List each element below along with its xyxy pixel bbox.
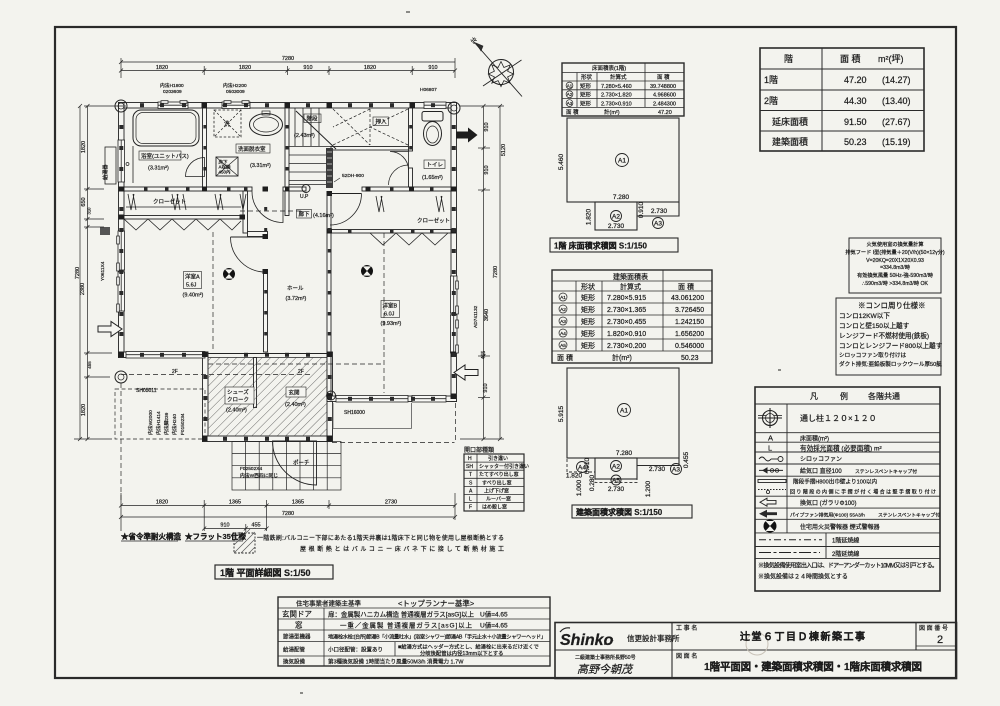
svg-text:(27.67): (27.67) — [882, 117, 911, 127]
stray scan marks — [300, 11, 781, 694]
svg-text:洋室A: 洋室A — [185, 273, 200, 281]
svg-text:910: 910 — [428, 65, 437, 71]
svg-text:V=20KQ=20X1X20X0.93: V=20KQ=20X1X20X0.93 — [866, 258, 924, 264]
svg-text:矩形: 矩形 — [580, 99, 592, 107]
svg-text:(14.27): (14.27) — [882, 75, 911, 85]
diagram: 1F floor area (求積図 1) — [567, 118, 679, 230]
svg-text:クローク: クローク — [227, 397, 249, 404]
compass north — [474, 42, 522, 97]
svg-text:形状: 形状 — [581, 73, 593, 81]
wall: bath/washroom — [203, 108, 207, 187]
porch tiles — [232, 442, 341, 491]
svg-text:1820: 1820 — [81, 404, 87, 416]
wall: interior corridor y189 — [124, 187, 252, 191]
svg-text:計算式: 計算式 — [620, 282, 641, 291]
note: hatch legend — [234, 529, 504, 553]
fixture: washing machine — [214, 110, 241, 137]
svg-text:450內: 450內 — [219, 169, 232, 176]
meter box — [100, 227, 110, 235]
svg-text:455: 455 — [87, 361, 92, 369]
svg-text:浴室(ユニットバス): 浴室(ユニットバス) — [141, 152, 189, 160]
room labels — [136, 114, 450, 479]
svg-text:A3: A3 — [567, 101, 573, 106]
svg-text:H: H — [468, 456, 472, 462]
svg-text:50.23: 50.23 — [844, 137, 867, 147]
svg-text:図 面 名: 図 面 名 — [676, 652, 697, 660]
symbol: 給気口 — [759, 469, 783, 471]
svg-text:クローゼット: クローゼット — [153, 198, 186, 206]
window symbols — [117, 101, 459, 402]
svg-text:玄関: 玄関 — [289, 389, 301, 397]
svg-text:建築面積表: 建築面積表 — [613, 272, 648, 281]
svg-text:給湯器: 給湯器 — [101, 164, 109, 180]
table: 1F floor area calc (床面積表) — [562, 63, 684, 116]
svg-text:0503009: 0503009 — [226, 89, 245, 95]
svg-text:∴590m3/時 >334.8m3/時 OK: ∴590m3/時 >334.8m3/時 OK — [862, 280, 929, 287]
svg-text:玄関ドア: 玄関ドア — [282, 609, 312, 619]
door arc: entrance — [273, 441, 317, 485]
caption: 1階 平面詳細図 S:1/50 — [215, 565, 333, 579]
symbol: 2階延焼線 — [759, 552, 820, 554]
canopy below hall window — [333, 403, 412, 428]
svg-text:H06807: H06807 — [420, 87, 437, 93]
svg-text:矩形: 矩形 — [581, 305, 595, 314]
svg-text:455: 455 — [481, 351, 487, 360]
svg-text:650: 650 — [81, 197, 87, 206]
svg-text:A2: A2 — [567, 92, 573, 97]
svg-text:1.820×0.910: 1.820×0.910 — [607, 331, 646, 338]
svg-text:凡: 凡 — [810, 392, 818, 401]
svg-text:★フラット35仕様: ★フラット35仕様 — [185, 531, 246, 541]
svg-text:AD741132: AD741132 — [473, 305, 479, 328]
svg-text:換気口 (ガラリΦ100): 換気口 (ガラリΦ100) — [800, 499, 856, 507]
diagram: building area (求積図 2) — [567, 368, 679, 482]
wall: 洋室B left — [327, 195, 331, 394]
svg-text:A3: A3 — [672, 467, 680, 474]
svg-text:回り階段の内側に手摺が付く場合は堅手摺取り付け: 回り階段の内側に手摺が付く場合は堅手摺取り付け — [790, 489, 936, 496]
svg-text:屋根断熱とはバルコニー床バネ下に接して断熱材施工: 屋根断熱とはバルコニー床バネ下に接して断熱材施工 — [300, 545, 504, 553]
svg-text:7.280×5.915: 7.280×5.915 — [607, 295, 646, 302]
closet zigzag rails — [124, 219, 241, 230]
svg-text:コンロと壁150以上離す: コンロと壁150以上離す — [839, 321, 910, 330]
svg-text:扉：金属製ハニカム構造 普通複層ガラス[asG]以上: 扉：金属製ハニカム構造 普通複層ガラス[asG]以上 — [328, 610, 475, 619]
svg-text:5.460: 5.460 — [558, 153, 565, 170]
svg-text:7.280: 7.280 — [613, 194, 630, 201]
svg-text:給湯配管: 給湯配管 — [283, 646, 306, 654]
svg-text:排気フード I型(排気量＋20(V/h)(50×12γ分): 排気フード I型(排気量＋20(V/h)(50×12γ分) — [845, 248, 945, 256]
svg-text:(13.40): (13.40) — [882, 96, 911, 106]
symbol: 通し柱 post — [763, 411, 778, 426]
svg-text:(9.40m²): (9.40m²) — [183, 293, 204, 299]
svg-text:建築面積: 建築面積 — [772, 136, 808, 147]
svg-text:シロッコファン: シロッコファン — [800, 456, 842, 463]
svg-text:クローゼット: クローゼット — [417, 217, 450, 225]
svg-text:A1: A1 — [567, 83, 573, 88]
svg-text:面 積: 面 積 — [557, 353, 573, 362]
svg-text:(4.16m²): (4.16m²) — [313, 213, 334, 219]
dimension: bottom — [119, 493, 457, 532]
svg-text:3640: 3640 — [484, 309, 490, 321]
svg-text:2.730×1.820: 2.730×1.820 — [601, 93, 632, 99]
svg-text:A3: A3 — [560, 319, 566, 325]
svg-text:910: 910 — [484, 122, 490, 131]
svg-text:5120: 5120 — [501, 144, 507, 156]
oshiire dashed cross — [333, 109, 408, 145]
svg-text:二級建築士事務所長野50号: 二級建築士事務所長野50号 — [575, 654, 636, 661]
svg-text:辻堂６丁目Ｄ棟新築工事: 辻堂６丁目Ｄ棟新築工事 — [740, 630, 865, 643]
posts (black squares) — [119, 103, 457, 442]
svg-text:★省令準耐火構造: ★省令準耐火構造 — [121, 531, 181, 541]
svg-text:すべり出し窓: すべり出し窓 — [482, 479, 512, 486]
svg-text:2: 2 — [937, 634, 943, 646]
svg-text:小口径配管：設置あり: 小口径配管：設置あり — [328, 646, 383, 654]
svg-text:7.280×5.460: 7.280×5.460 — [601, 84, 632, 90]
svg-text:窓: 窓 — [295, 620, 303, 630]
svg-text:1階延焼線: 1階延焼線 — [832, 537, 859, 545]
svg-text:面 積: 面 積 — [657, 73, 670, 81]
svg-text:開口部種類: 開口部種類 — [464, 446, 494, 454]
svg-text:4.968600: 4.968600 — [653, 93, 676, 99]
svg-text:洗: 洗 — [224, 120, 230, 128]
svg-text:ステンレスベントキャップ付: ステンレスベントキャップ付 — [878, 511, 940, 518]
fixture: toilet — [422, 112, 443, 122]
svg-text:A2: A2 — [560, 307, 566, 313]
svg-text:1.242150: 1.242150 — [675, 319, 704, 326]
symbol: パイプファン black arrow — [759, 510, 777, 518]
svg-text:矩形: 矩形 — [580, 91, 592, 99]
svg-text:ステンレスベントキャップ付: ステンレスベントキャップ付 — [855, 468, 917, 475]
svg-text:たてすべり出し窓: たてすべり出し窓 — [479, 471, 519, 478]
svg-text:T: T — [469, 472, 472, 478]
svg-text:面 積: 面 積 — [840, 53, 861, 64]
symbol: 1階延焼線 — [759, 539, 822, 541]
window: toilet top H06807 — [424, 102, 446, 109]
svg-text:(2.40m²): (2.40m²) — [285, 402, 306, 408]
svg-text:地湯栓水栓:(台所)節湯B「小流量吐水」(浴室シャワー)節湯: 地湯栓水栓:(台所)節湯B「小流量吐水」(浴室シャワー)節湯AB「手元止水＋小流… — [328, 633, 546, 641]
svg-text:2.730×0.200: 2.730×0.200 — [607, 343, 646, 350]
svg-text:シャッター付引き違い: シャッター付引き違い — [479, 463, 529, 470]
fire alarm 洋室A — [223, 268, 235, 280]
svg-text:1.656200: 1.656200 — [675, 331, 704, 338]
svg-text:1820: 1820 — [156, 65, 168, 71]
svg-text:1820: 1820 — [156, 500, 168, 506]
svg-text:シューズ: シューズ — [227, 388, 249, 396]
svg-text:図 面 番 号: 図 面 番 号 — [919, 625, 948, 632]
svg-text:内法H240: 内法H240 — [171, 414, 178, 435]
svg-text:2.730: 2.730 — [608, 223, 625, 230]
svg-text:91.50: 91.50 — [844, 117, 867, 127]
svg-text:階段手摺H800出巾壁より100以内: 階段手摺H800出巾壁より100以内 — [793, 478, 878, 486]
svg-text:2.730: 2.730 — [649, 466, 666, 473]
wall: closet A bottom — [124, 216, 243, 220]
svg-text:矩形: 矩形 — [581, 293, 595, 302]
svg-text:※換気設備は２４時間換気とする: ※換気設備は２４時間換気とする — [758, 573, 848, 581]
door arc: washroom to corridor — [252, 192, 283, 223]
svg-text:2.484300: 2.484300 — [653, 101, 676, 107]
wall: genkan right — [327, 352, 333, 442]
table: トップランナー基準 — [278, 597, 550, 666]
svg-text:一階鉄刷:バルコニー下部にあたる1階天井裏は1階床下と同じ物: 一階鉄刷:バルコニー下部にあたる1階天井裏は1階床下と同じ物を使用し屋根断熱とす… — [257, 534, 504, 542]
svg-text:形状: 形状 — [581, 282, 595, 291]
terrace window labels vertical — [147, 410, 186, 435]
svg-text:内法W2000: 内法W2000 — [147, 410, 154, 435]
window: washroom top 0503009 — [222, 102, 250, 109]
svg-text:2.730: 2.730 — [651, 208, 668, 215]
svg-text:(2.40m²): (2.40m²) — [226, 408, 247, 414]
water heater box — [105, 147, 116, 184]
wall: lower-right bottom — [327, 396, 457, 402]
svg-text:2階: 2階 — [764, 96, 778, 106]
svg-text:パイプファン排気用(Φ100) 55A3/h: パイプファン排気用(Φ100) 55A3/h — [790, 511, 865, 518]
svg-text:7280: 7280 — [75, 267, 81, 279]
svg-text:Y0611X4: Y0611X4 — [100, 261, 106, 281]
svg-text:1820: 1820 — [81, 141, 87, 153]
svg-text:給気口 直径100: 給気口 直径100 — [800, 467, 842, 475]
svg-text:通し柱１２０×１２０: 通し柱１２０×１２０ — [800, 413, 877, 423]
table: 凡例 legend (right) — [755, 387, 940, 591]
svg-text:1.200: 1.200 — [645, 480, 652, 497]
table: floor area summary (top right) — [760, 48, 924, 151]
svg-text:第3種換気設備 1時間当たり風量50M3/h 消費電力: 第3種換気設備 1時間当たり風量50M3/h 消費電力 1.7W — [328, 658, 464, 666]
svg-text:トイレ: トイレ — [427, 163, 444, 169]
svg-text:1階平面図・建築面積求積図・1階床面積求積図: 1階平面図・建築面積求積図・1階床面積求積図 — [704, 660, 922, 673]
svg-text:310: 310 — [87, 207, 92, 215]
svg-text:U値=4.65: U値=4.65 — [480, 621, 508, 630]
door arc: 洋室B — [330, 193, 362, 195]
svg-text:7280: 7280 — [282, 56, 294, 62]
svg-text:1.820: 1.820 — [586, 208, 593, 225]
svg-text:換気設備: 換気設備 — [283, 658, 306, 666]
svg-text:(3.31m²): (3.31m²) — [250, 163, 271, 169]
svg-text:A3: A3 — [654, 221, 662, 228]
svg-text:1.820: 1.820 — [566, 473, 583, 480]
svg-text:シロッコファン取り付けは: シロッコファン取り付けは — [839, 351, 907, 359]
svg-text:m²(坪): m²(坪) — [878, 54, 904, 64]
svg-text:47.20: 47.20 — [658, 110, 672, 116]
svg-text:L: L — [469, 497, 472, 503]
svg-text:住宅用火災警報器 煙式警報器: 住宅用火災警報器 煙式警報器 — [800, 523, 880, 531]
caption: 建築面積求積図 S:1/150 — [572, 505, 692, 518]
svg-text:7.280: 7.280 — [616, 450, 633, 457]
symbol: 火災警報器 — [764, 520, 777, 533]
svg-text:A: A — [469, 488, 473, 494]
svg-text:内法脚239: 内法脚239 — [163, 412, 170, 435]
dashed module lines — [115, 211, 456, 500]
wall: exterior top — [119, 103, 457, 109]
svg-text:矩形: 矩形 — [581, 341, 595, 350]
svg-text:A2: A2 — [612, 464, 620, 471]
svg-text:2380: 2380 — [80, 283, 86, 295]
svg-text:床面積表(1階): 床面積表(1階) — [592, 64, 626, 72]
svg-text:コンロ12KW以下: コンロ12KW以下 — [839, 312, 890, 320]
svg-text:3.726450: 3.726450 — [675, 307, 704, 314]
svg-text:内法H2200: 内法H2200 — [223, 82, 247, 89]
svg-text:52DH-900: 52DH-900 — [342, 173, 364, 179]
svg-text:ダクト排気:亜鉛板製ロックウール厚50艇: ダクト排気:亜鉛板製ロックウール厚50艇 — [839, 360, 942, 368]
small wall posts — [119, 103, 456, 441]
svg-text:階: 階 — [784, 54, 793, 64]
svg-text:火気使用室の換気量計算: 火気使用室の換気量計算 — [866, 240, 923, 248]
svg-text:A1: A1 — [560, 295, 566, 301]
logo: Shinko — [560, 628, 768, 676]
svg-text:0.910: 0.910 — [638, 201, 645, 218]
svg-text:A: A — [768, 434, 773, 443]
svg-text:6.0J: 6.0J — [384, 312, 395, 318]
svg-text:910: 910 — [484, 165, 490, 174]
door arc: 洋室A — [231, 236, 266, 238]
svg-text:内法W西四に同じ: 内法W西四に同じ — [240, 472, 278, 479]
svg-text:0203609: 0203609 — [163, 89, 182, 95]
svg-text:SH05011: SH05011 — [136, 388, 157, 394]
wall: exterior right — [451, 103, 457, 402]
wall: exterior left — [119, 103, 125, 358]
svg-text:1365: 1365 — [229, 500, 241, 506]
svg-text:F0150234: F0150234 — [180, 413, 186, 435]
svg-text:床面積(m²): 床面積(m²) — [800, 435, 829, 443]
caption: 1階 床面積求積図 S:1/150 — [550, 238, 678, 252]
svg-text:各階共通: 各階共通 — [868, 391, 900, 401]
svg-text:<トップランナー基準>: <トップランナー基準> — [398, 598, 475, 608]
svg-text:有効換気風量 50Hz-強-590m3/時: 有効換気風量 50Hz-強-590m3/時 — [857, 271, 933, 279]
legend symbols — [758, 408, 822, 553]
wall: bottom of 洋室A — [119, 352, 208, 358]
svg-text:2.730×1.365: 2.730×1.365 — [607, 307, 646, 314]
svg-text:SH: SH — [466, 464, 473, 470]
symbol: 手摺 double line — [758, 480, 786, 483]
svg-text:2.730: 2.730 — [608, 486, 625, 493]
window: SH05011 bottom of 洋室A — [126, 352, 205, 359]
svg-text:ポーチ: ポーチ — [293, 460, 310, 467]
svg-text:洗面脱衣室: 洗面脱衣室 — [238, 145, 266, 153]
svg-text:(2.43m²): (2.43m²) — [294, 133, 315, 139]
wall: washroom/stair — [285, 108, 289, 187]
svg-text:計(m²): 計(m²) — [612, 353, 632, 362]
svg-text:A1: A1 — [620, 408, 628, 415]
svg-text:建築面積求積図 S:1/150: 建築面積求積図 S:1/150 — [575, 507, 663, 517]
svg-text:1階: 1階 — [764, 75, 778, 85]
svg-text:延床面積: 延床面積 — [772, 116, 808, 127]
svg-text:引き違い: 引き違い — [488, 455, 508, 462]
svg-text:1365: 1365 — [292, 500, 304, 506]
stairs — [289, 108, 336, 185]
window: SH16000 bottom-right — [336, 396, 408, 403]
svg-text:コンロとレンジフード800以上離す: コンロとレンジフード800以上離す — [839, 341, 943, 350]
svg-text:2.730×0.455: 2.730×0.455 — [607, 319, 646, 326]
svg-text:矩形: 矩形 — [580, 82, 592, 90]
svg-text:S: S — [469, 480, 473, 486]
svg-text:A4: A4 — [560, 331, 566, 337]
svg-text:上げ下げ窓: 上げ下げ窓 — [484, 487, 509, 494]
svg-text:0.455: 0.455 — [683, 451, 690, 468]
note box: コンロ周り仕様 — [836, 298, 941, 375]
svg-text:43.061200: 43.061200 — [671, 295, 704, 302]
fixture: underfloor storage — [216, 157, 238, 176]
top window labels — [160, 82, 437, 95]
svg-text:2730: 2730 — [385, 500, 397, 506]
svg-text:内法H1414: 内法H1414 — [155, 411, 162, 435]
svg-text:節湯型機器: 節湯型機器 — [283, 633, 311, 641]
svg-text:910: 910 — [220, 523, 229, 529]
svg-text:1階 平面詳細図 S:1/50: 1階 平面詳細図 S:1/50 — [220, 567, 311, 578]
dimension: right — [460, 104, 504, 441]
dimension: top — [119, 58, 457, 78]
svg-text:(3.31m²): (3.31m²) — [148, 166, 169, 172]
svg-text:47.20: 47.20 — [844, 75, 867, 85]
svg-text:A5: A5 — [560, 343, 566, 349]
wall: genkan left — [203, 352, 209, 442]
svg-text:面 積: 面 積 — [678, 282, 694, 291]
arrow: black (toilet vent) — [456, 128, 478, 143]
svg-text:39.748800: 39.748800 — [650, 84, 676, 90]
wall: genkan partition — [254, 358, 257, 408]
svg-text:2F: 2F — [298, 369, 304, 375]
window: 洋室A left (two sash) — [118, 231, 125, 270]
svg-text:※コンロ周り仕様※: ※コンロ周り仕様※ — [858, 300, 926, 310]
svg-text:計算式: 計算式 — [610, 73, 627, 81]
corner post circles — [115, 100, 460, 400]
window: 洋室B right (two sash) — [451, 276, 458, 313]
svg-text:2階延焼線: 2階延焼線 — [832, 550, 859, 558]
svg-text:F: F — [469, 505, 472, 511]
svg-text:一重／金属製 普通複層ガラス[asG]以上: 一重／金属製 普通複層ガラス[asG]以上 — [340, 621, 473, 630]
svg-text:SH16000: SH16000 — [344, 410, 365, 416]
svg-text:住宅事業者建築主基準: 住宅事業者建築主基準 — [296, 599, 362, 608]
svg-text:A5: A5 — [612, 478, 620, 485]
svg-text:5.6J: 5.6J — [186, 283, 197, 289]
arrow: white entry left — [98, 322, 122, 337]
svg-text:1階 床面積求積図 S:1/150: 1階 床面積求積図 S:1/150 — [554, 241, 647, 251]
svg-text:1820: 1820 — [364, 65, 376, 71]
svg-text:(1.65m²): (1.65m²) — [422, 175, 443, 181]
svg-text:A1: A1 — [618, 158, 626, 165]
title block — [555, 623, 957, 679]
svg-text:(15.19): (15.19) — [882, 137, 911, 147]
wall: 洋室A right — [243, 191, 248, 233]
svg-text:44.30: 44.30 — [844, 96, 867, 106]
table: building area calc (建築面積表) — [552, 270, 712, 363]
svg-text:910: 910 — [483, 383, 489, 392]
wall: genkan bottom — [203, 436, 333, 442]
note: 省令準耐火 — [121, 531, 246, 541]
svg-text:押入: 押入 — [376, 118, 388, 126]
svg-text:■給湯方式はヘッダー方式とし、給湯栓に出来るだけ近くで: ■給湯方式はヘッダー方式とし、給湯栓に出来るだけ近くで — [398, 643, 539, 651]
svg-text:5.915: 5.915 — [558, 405, 565, 422]
window: bath left — [118, 140, 125, 182]
svg-text:455: 455 — [251, 523, 260, 529]
svg-text:廊下: 廊下 — [299, 210, 311, 218]
note box: kitchen ventilation calc — [849, 238, 941, 293]
arrow: white entry right — [454, 365, 478, 380]
symbol: シロッコファン — [759, 457, 771, 461]
wall: oshiire bottom — [331, 147, 409, 151]
svg-text:0.910: 0.910 — [584, 457, 591, 474]
door arc: bath — [186, 158, 205, 177]
svg-text:50.23: 50.23 — [681, 355, 699, 362]
svg-text:U.P: U.P — [300, 194, 309, 200]
fire alarm 洋室B — [361, 265, 373, 277]
svg-text:有効採光面積 (必要面積) m²: 有効採光面積 (必要面積) m² — [800, 443, 882, 452]
svg-text:A2: A2 — [612, 214, 620, 221]
svg-text:はめ殺し窓: はめ殺し窓 — [482, 504, 507, 511]
svg-text:910: 910 — [303, 65, 312, 71]
svg-text:例: 例 — [840, 391, 848, 401]
wall: toilet left — [409, 108, 413, 151]
svg-text:信更設計事務所: 信更設計事務所 — [627, 633, 680, 643]
svg-text:1.000: 1.000 — [576, 479, 583, 496]
svg-text:面 積: 面 積 — [566, 108, 579, 116]
svg-text:U値=4.65: U値=4.65 — [480, 610, 508, 619]
svg-text:レンジフード不燃材使用(鉄板): レンジフード不燃材使用(鉄板) — [839, 331, 929, 340]
